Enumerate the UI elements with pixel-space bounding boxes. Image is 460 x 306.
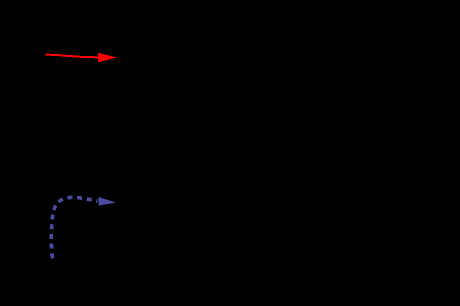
red annotation arrow: head — [98, 53, 117, 62]
blue dashed annotation arrow: head — [99, 197, 117, 206]
red annotation arrow: shaft — [47, 55, 100, 58]
blue dashed annotation arrow: curved shaft — [51, 197, 97, 258]
